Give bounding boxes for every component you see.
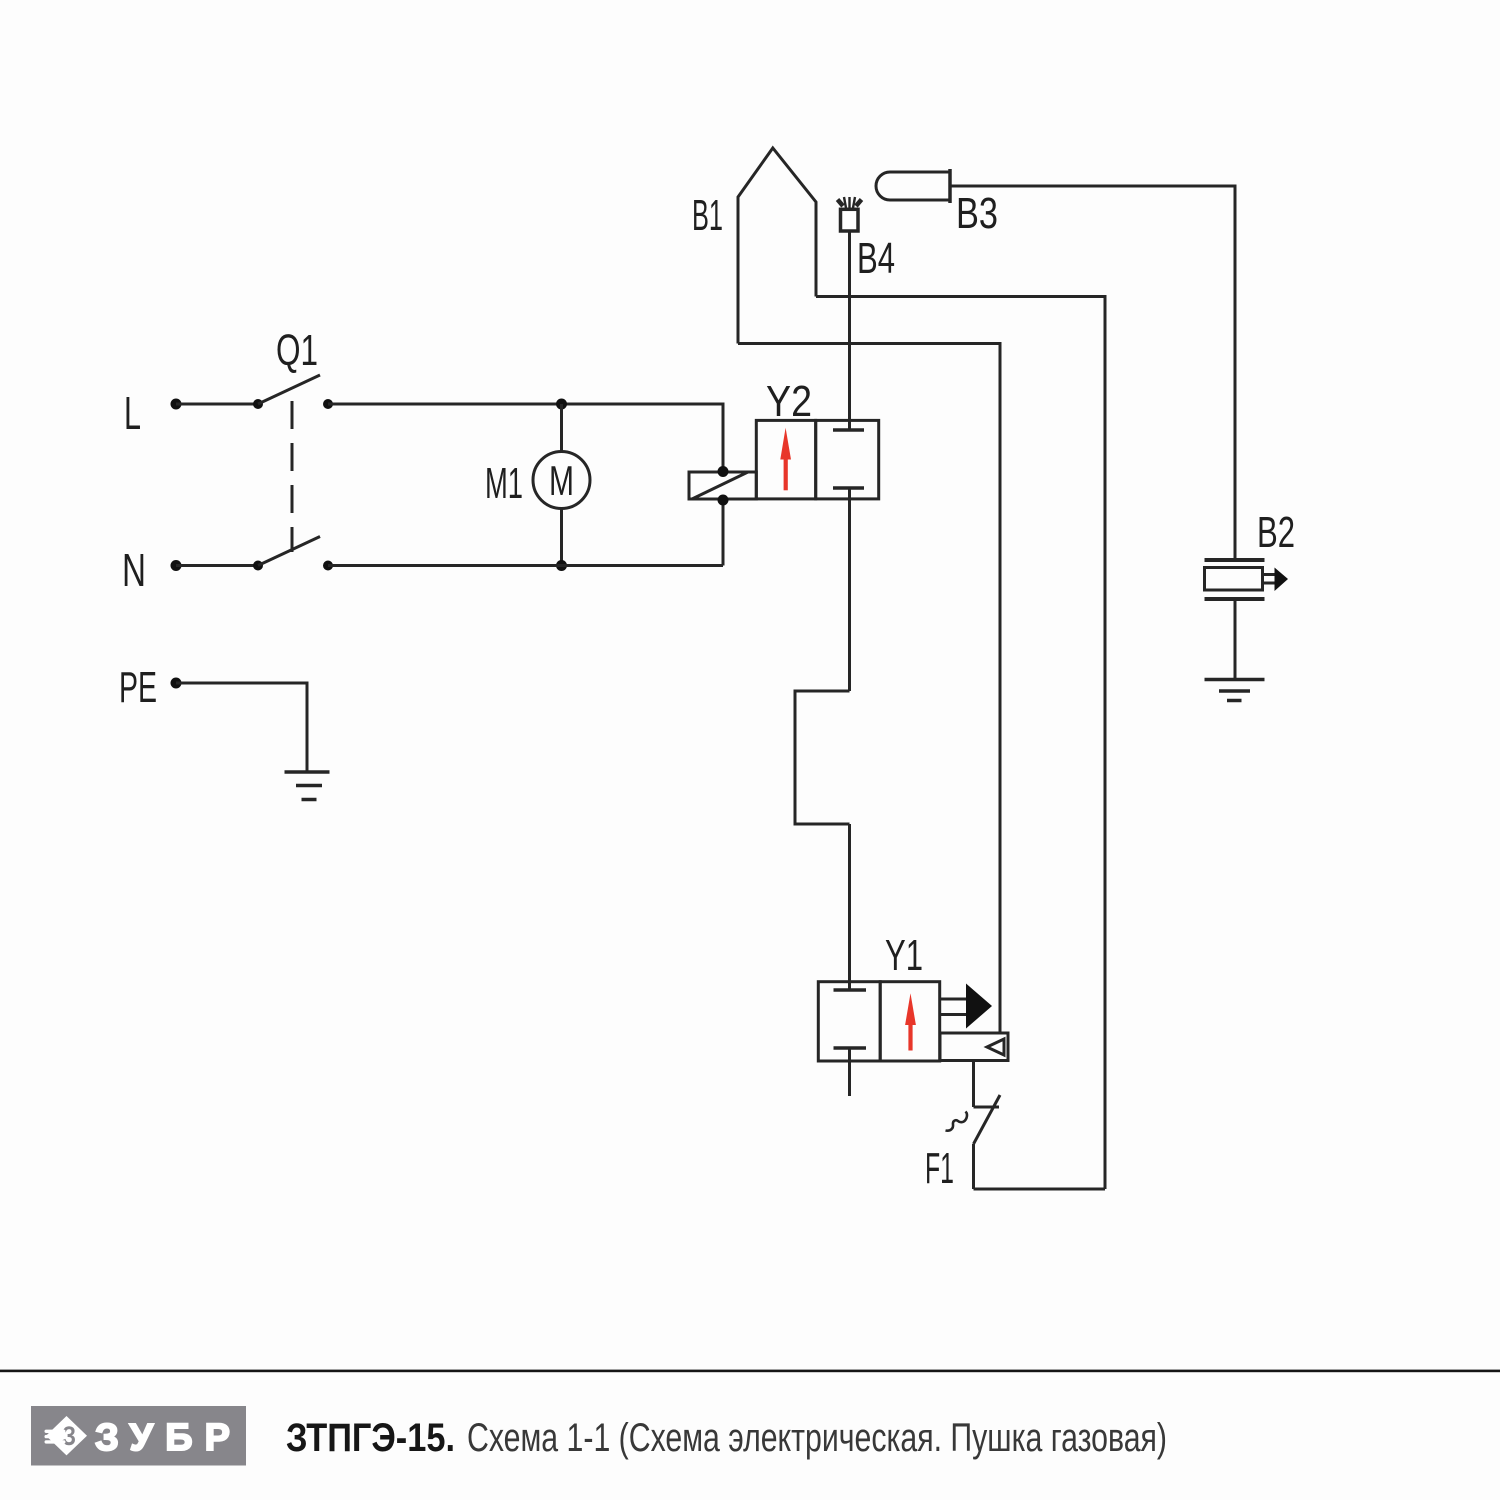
switch Q1 pole L contact left dot xyxy=(253,399,263,409)
wire F1 lower xyxy=(972,1144,975,1189)
wire PE xyxy=(176,683,307,772)
wire B4 to Y2 electrode xyxy=(848,231,851,430)
solenoid coil of Y2 xyxy=(689,472,756,499)
wire coil bottom branch xyxy=(722,500,725,566)
svg-text:Схема 1-1 (Схема электрическая: Схема 1-1 (Схема электрическая. Пушка га… xyxy=(467,1416,1167,1460)
wire Y1 electrode stub xyxy=(848,1048,851,1096)
wire L bus xyxy=(328,404,723,472)
wire L lead xyxy=(176,403,258,406)
spark arrow of B2 xyxy=(1263,568,1289,592)
electrode bottom inside Y2 xyxy=(833,486,864,490)
motor M1 circle xyxy=(533,452,590,509)
switch Q1 pole N contact left dot xyxy=(253,561,263,571)
svg-text:B1: B1 xyxy=(692,191,723,240)
svg-text:L: L xyxy=(124,387,141,439)
pilot actuator box of Y1 xyxy=(940,1033,1008,1061)
junction dot M1 top xyxy=(556,399,567,410)
svg-text:M: M xyxy=(549,457,574,504)
switch Q1 pole N contact right dot xyxy=(323,561,333,571)
svg-text:B2: B2 xyxy=(1257,508,1295,557)
svg-text:Y1: Y1 xyxy=(885,931,923,980)
svg-text:M1: M1 xyxy=(485,459,523,508)
thermostat B3 xyxy=(876,169,950,203)
svg-text:N: N xyxy=(122,544,146,596)
footer rule xyxy=(0,1370,1500,1373)
svg-text:Y2: Y2 xyxy=(766,377,812,426)
piezo igniter B2 xyxy=(1205,560,1265,599)
electrode bottom inside Y1 xyxy=(834,1046,867,1050)
wire B1 left to Y1 pilot xyxy=(738,344,1000,1034)
node PE terminal dot xyxy=(171,678,182,689)
electrode top inside Y2 xyxy=(833,428,864,432)
wire jog to Y1 electrode xyxy=(848,824,851,990)
switch Q1 pole N blade xyxy=(258,537,320,566)
wire N lead xyxy=(176,564,258,567)
wire M1 top branch xyxy=(560,404,563,452)
svg-text:Q1: Q1 xyxy=(276,326,318,375)
thermal switch F1 xyxy=(946,1095,1001,1144)
flow arrow inside Y1 (red) xyxy=(905,993,916,1050)
svg-text:F1: F1 xyxy=(925,1144,954,1193)
electrode top inside Y1 xyxy=(834,988,867,992)
node L terminal dot xyxy=(171,399,182,410)
switch Q1 pole L contact right dot xyxy=(323,399,333,409)
svg-text:B3: B3 xyxy=(956,189,998,238)
wire N bus xyxy=(328,564,723,567)
junction dot M1 bottom xyxy=(556,560,567,571)
wire B2 to ground xyxy=(1234,599,1237,679)
valve Y2 body xyxy=(756,420,878,499)
junction dot coil top xyxy=(718,466,729,477)
logo ZUBR diamond icon xyxy=(45,1416,88,1455)
spark electrode B4 xyxy=(838,197,862,231)
node N terminal dot xyxy=(171,560,182,571)
wire B3 to B2 xyxy=(950,186,1235,559)
burner B1 xyxy=(738,148,816,344)
junction dot coil bottom xyxy=(718,495,729,506)
wire Y2 outlet down xyxy=(848,488,851,691)
ground PE xyxy=(285,772,330,800)
svg-text:PE: PE xyxy=(119,663,157,712)
gas output arrow of Y1 xyxy=(940,984,992,1029)
svg-text:B4: B4 xyxy=(857,234,895,283)
wire B1 right to F1 return xyxy=(816,297,1105,1190)
flow arrow inside Y2 (red) xyxy=(780,428,791,491)
wire Y1 to F1 xyxy=(972,1061,975,1108)
wire jog xyxy=(795,691,850,824)
ground B2 xyxy=(1205,680,1265,701)
valve Y1 body xyxy=(818,982,939,1061)
logo ZUBR box xyxy=(31,1406,246,1466)
switch Q1 mechanical link dashed line xyxy=(291,401,294,552)
wire M1 bottom branch xyxy=(560,509,563,566)
switch Q1 pole L blade xyxy=(258,375,320,404)
wire F1 return bottom xyxy=(974,1188,1106,1191)
svg-text:ЗТПГЭ-15.: ЗТПГЭ-15. xyxy=(286,1416,455,1460)
